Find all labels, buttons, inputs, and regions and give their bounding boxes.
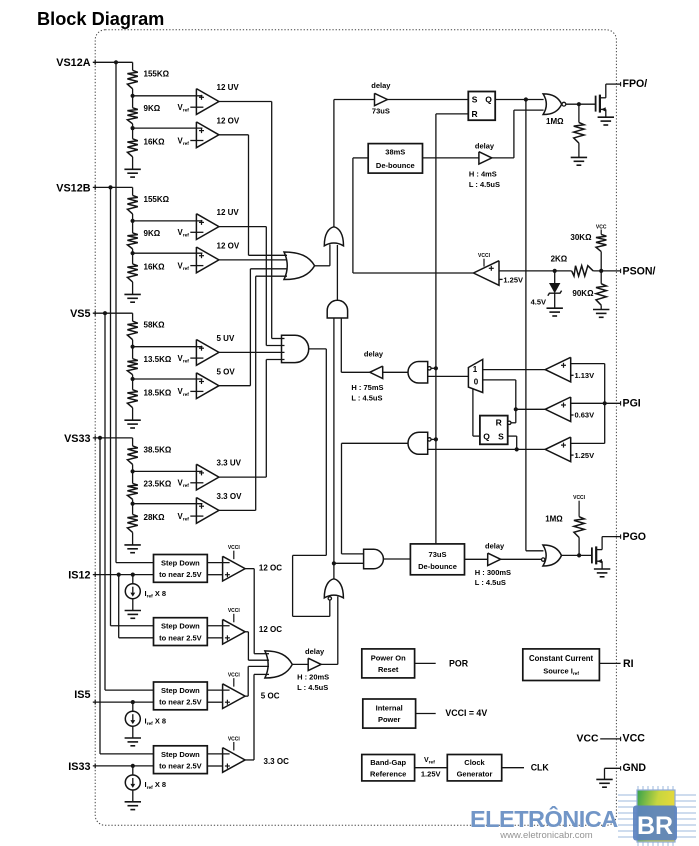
svg-text:12 UV: 12 UV xyxy=(217,208,240,217)
wire VS12B R2-R3 xyxy=(132,249,134,264)
logo BR square xyxy=(633,806,677,841)
comparator 3.3 OV xyxy=(196,498,219,524)
svg-text:VS12A: VS12A xyxy=(56,57,90,69)
and-gate AND3 (points left, inverted top input) xyxy=(408,362,428,384)
latch RS (R / Q S) xyxy=(480,416,508,445)
node VS33 rail junction xyxy=(98,436,102,440)
wire VS12A R3 to ground xyxy=(132,157,134,170)
node PGO gate / 1M resistor xyxy=(577,553,581,557)
svg-text:90KΩ: 90KΩ xyxy=(572,289,594,298)
wire 5OV output to OR gate xyxy=(219,385,251,387)
current source Iref X 8 xyxy=(132,702,134,711)
comparator 12 OV xyxy=(196,247,219,273)
svg-text:VCC: VCC xyxy=(623,732,646,744)
comparator 12 UV xyxy=(196,214,219,240)
pin GND xyxy=(620,766,622,770)
and-gate UV power-good (4-input) xyxy=(282,335,309,362)
wire 20mS delay output to OC/UV OR xyxy=(321,663,338,665)
wire PGO OR output to gate xyxy=(562,554,592,556)
wire VS5 R2-R3 xyxy=(132,375,134,390)
ground (zener) xyxy=(547,307,563,309)
resistor 155K&#937; (top of VS12B divider) xyxy=(127,195,137,214)
svg-text:58KΩ: 58KΩ xyxy=(144,321,166,330)
resistor 16K&#937; (bottom of VS12B divider) xyxy=(127,264,137,282)
wire mux input 1 from 1.13V comparator xyxy=(483,369,546,371)
svg-text:VS5: VS5 xyxy=(70,308,90,320)
wire 300mS delay to PGO OR (inverted input) xyxy=(501,558,542,560)
wire VS5 R1-R2 xyxy=(132,340,134,359)
svg-text:GND: GND xyxy=(623,762,647,774)
wire NOR output to FPO gate xyxy=(566,103,596,105)
node IS33 current source tap xyxy=(131,764,135,768)
wire GND to ground xyxy=(605,767,621,769)
wire mux select from latch Q xyxy=(472,389,474,436)
svg-text:to near 2.5V: to near 2.5V xyxy=(159,570,202,579)
wire VS12B R3 to ground xyxy=(132,282,134,295)
svg-text:BR: BR xyxy=(637,812,673,840)
wire rail input to step-down (12 OC) xyxy=(116,562,154,564)
svg-text:IS5: IS5 xyxy=(74,689,90,701)
svg-text:2KΩ: 2KΩ xyxy=(551,254,568,263)
wire VS12A chain elbow xyxy=(132,62,134,70)
wire 12OC#1 output to OC OR xyxy=(245,568,254,570)
svg-text:to near 2.5V: to near 2.5V xyxy=(159,762,202,771)
buffer delay H:4mS L:4.5uS xyxy=(479,152,492,164)
wire VS33 chain elbow xyxy=(132,438,134,446)
svg-text:4.5V: 4.5V xyxy=(531,298,546,307)
svg-text:12 OC: 12 OC xyxy=(259,625,282,634)
wire 3.3OC output to OC OR xyxy=(245,759,254,761)
node VS12B rail junction xyxy=(108,185,112,189)
resistor 9K&#937; (middle of VS12A divider) xyxy=(127,108,137,124)
node VS12A rail junction xyxy=(114,60,118,64)
wire OV-OR output to OR2 xyxy=(315,265,330,267)
wire VS12B rail down to step-down xyxy=(110,187,112,625)
svg-text:23.5KΩ: 23.5KΩ xyxy=(144,480,172,489)
latch SR (S Q / R) xyxy=(468,92,495,121)
wire IS33 input xyxy=(93,765,154,767)
pin IS33 xyxy=(94,764,96,769)
svg-text:Step Down: Step Down xyxy=(161,750,200,759)
buffer delay H:20mS L:4.5uS xyxy=(308,658,321,670)
current source Iref X 8 xyxy=(132,575,134,584)
ground (current source) xyxy=(125,610,141,612)
wire VS33 rail down to step-down xyxy=(99,438,101,754)
svg-text:to near 2.5V: to near 2.5V xyxy=(159,698,202,707)
wire latch R input (inverted) xyxy=(508,421,511,424)
wire VS5 input xyxy=(93,312,133,314)
wire VS33 R3 to ground xyxy=(132,532,134,545)
ground (FPO 1M resistor) xyxy=(571,156,587,158)
wire AND5 inverted input from fault bus xyxy=(431,438,436,440)
wire 5UV output to AND gate xyxy=(219,351,285,353)
or-gate OR2 (fault combine, points up) xyxy=(324,227,343,246)
wire 0.63V + input / PGI pin xyxy=(571,402,621,404)
wire IS12 branch to second step-down xyxy=(117,573,121,577)
ground (90K) xyxy=(593,309,609,311)
wire AND5 output to PGO AND xyxy=(342,442,409,444)
svg-text:L : 4.5uS: L : 4.5uS xyxy=(297,683,328,692)
wire AND3 output to 75mS delay xyxy=(383,371,408,373)
svg-text:Reset: Reset xyxy=(378,665,399,674)
node Q output branch xyxy=(524,97,528,101)
svg-text:12 OC: 12 OC xyxy=(259,564,282,573)
wire latch Q output to mux select xyxy=(473,435,480,437)
svg-text:16KΩ: 16KΩ xyxy=(144,263,166,272)
wire VS5 UV tap to comparator xyxy=(133,346,203,348)
svg-text:28KΩ: 28KΩ xyxy=(144,513,166,522)
svg-text:CLK: CLK xyxy=(531,763,550,773)
svg-text:12 OV: 12 OV xyxy=(217,242,240,251)
or-gate OV fault (4-input) xyxy=(284,252,315,280)
wire rail input to step-down (5 OC) xyxy=(105,689,154,691)
ground (GND pin) xyxy=(596,778,612,780)
pin VCC xyxy=(620,737,622,741)
wire VS5 chain elbow xyxy=(132,313,134,321)
svg-text:1.13V: 1.13V xyxy=(575,371,595,380)
box Clock Generator xyxy=(447,755,501,781)
svg-text:3.3 UV: 3.3 UV xyxy=(217,459,242,468)
wire step-down outputs to comparator (12 OC) xyxy=(207,625,229,627)
wire step-down outputs to comparator (3.3 OC) xyxy=(207,753,229,755)
wire 12OV(A) output to OR gate xyxy=(219,134,249,136)
svg-text:IS12: IS12 xyxy=(68,570,90,582)
wire 12OV(B) output to OR gate xyxy=(219,259,287,261)
resistor 9K&#937; (middle of VS12B divider) xyxy=(127,233,137,249)
wire mux output to AND3 xyxy=(428,375,469,377)
ground (VS33 divider) xyxy=(124,544,140,546)
or-gate OC/UV combine (points up, inverted left input) xyxy=(324,579,343,598)
wire POR output xyxy=(415,662,436,664)
pin PSON/ xyxy=(620,269,622,273)
and-gate PGO AND xyxy=(364,549,384,568)
or-gate OC fault (4-input) xyxy=(265,651,292,678)
pin PGI xyxy=(620,401,622,405)
node IS12 current source tap xyxy=(131,573,135,577)
svg-text:16KΩ: 16KΩ xyxy=(144,138,166,147)
node VS5 UV tap xyxy=(131,345,135,349)
wire VS12B chain elbow xyxy=(132,187,134,195)
svg-text:1.25V: 1.25V xyxy=(421,770,441,779)
svg-text:13.5KΩ: 13.5KΩ xyxy=(144,355,172,364)
wire AND1 left input from OC/UV OR gate xyxy=(333,318,335,579)
svg-text:S: S xyxy=(472,94,478,104)
svg-text:155KΩ: 155KΩ xyxy=(144,70,170,79)
node VS12B UV tap xyxy=(131,219,135,223)
svg-text:H : 4mS: H : 4mS xyxy=(469,170,497,179)
wire OC OR to 20mS delay xyxy=(292,663,308,665)
wire VS33 OV tap to comparator xyxy=(133,503,203,505)
mux PGI select (1/0) xyxy=(468,359,482,392)
svg-text:VCC: VCC xyxy=(577,733,599,744)
svg-text:0.63V: 0.63V xyxy=(575,411,595,420)
wire VS5 R3 to ground xyxy=(132,408,134,421)
svg-text:1MΩ: 1MΩ xyxy=(546,117,564,126)
node FPO gate / 1M resistor xyxy=(577,102,581,106)
wire VS33 UV tap to comparator xyxy=(133,470,203,472)
svg-text:PSON/: PSON/ xyxy=(623,265,656,277)
resistor 23.5K&#937; (middle of VS33 divider) xyxy=(127,483,137,499)
svg-text:Q: Q xyxy=(485,94,492,104)
svg-text:1MΩ: 1MΩ xyxy=(545,515,563,524)
svg-text:VCCI: VCCI xyxy=(228,545,241,551)
wire 3.3UV output to AND gate xyxy=(219,476,266,478)
transistor FPO output MOSFET xyxy=(595,96,597,112)
svg-text:VCCI: VCCI xyxy=(228,608,241,614)
wire 12UV(B) output to AND gate xyxy=(219,226,266,228)
wire VS12B input xyxy=(93,186,133,188)
svg-text:ELETRÔNICA: ELETRÔNICA xyxy=(470,805,618,832)
resistor 58K&#937; (top of VS5 divider) xyxy=(127,321,137,340)
resistor 38.5K&#937; (top of VS33 divider) xyxy=(127,446,137,465)
box Band-Gap Reference xyxy=(362,755,415,781)
svg-text:Step Down: Step Down xyxy=(161,559,200,568)
svg-text:De-bounce: De-bounce xyxy=(376,161,415,170)
wire VS5 rail down to step-down xyxy=(104,313,106,690)
box 38mS De-bounce xyxy=(368,144,422,174)
comparator 1.25V (points left) xyxy=(545,437,571,462)
svg-text:73uS: 73uS xyxy=(429,550,447,559)
svg-text:PGI: PGI xyxy=(623,398,641,410)
svg-text:1.25V: 1.25V xyxy=(575,451,595,460)
wire PSON input network xyxy=(499,270,572,272)
pin VS12B xyxy=(94,185,96,190)
svg-text:VCCI: VCCI xyxy=(228,673,241,679)
svg-text:12 OV: 12 OV xyxy=(217,116,240,125)
node fault bus to AND3 xyxy=(434,366,438,370)
svg-text:VCC: VCC xyxy=(596,224,607,230)
svg-text:delay: delay xyxy=(364,350,384,359)
node PGI bus junction xyxy=(603,401,607,405)
buffer delay H:75mS L:4.5uS (points left) xyxy=(370,366,383,378)
wire AND1 right input from 75mS delay xyxy=(340,318,342,372)
wire VS33 R1-R2 xyxy=(132,464,134,483)
svg-text:VCCI = 4V: VCCI = 4V xyxy=(445,708,487,718)
IC boundary dashed border xyxy=(95,30,616,826)
wire mux input 0 from 0.63V comparator xyxy=(483,379,516,381)
current source Iref X 8 xyxy=(132,766,134,775)
svg-text:Power On: Power On xyxy=(371,653,406,662)
svg-text:POR: POR xyxy=(449,658,469,668)
svg-text:1.25V: 1.25V xyxy=(503,276,523,285)
wire UV-AND output loop to OC OR gate xyxy=(309,348,327,350)
wire step-down outputs to comparator (12 OC) xyxy=(207,562,229,564)
svg-text:1: 1 xyxy=(473,365,478,374)
pin VS33 xyxy=(94,436,96,441)
svg-text:PGO: PGO xyxy=(623,531,647,543)
wire 0.63V comparator output xyxy=(516,408,546,410)
wire 5OC output to OC OR xyxy=(245,695,248,697)
wire 12UV(A) output to AND gate xyxy=(219,101,272,103)
wire 3.3OV output to OR gate xyxy=(219,509,256,511)
svg-text:Generator: Generator xyxy=(457,770,493,779)
svg-text:3.3 OC: 3.3 OC xyxy=(264,757,290,766)
wire VS12A rail down to step-down xyxy=(115,62,117,562)
comparator 0.63V (points left) xyxy=(545,397,571,422)
svg-text:to near 2.5V: to near 2.5V xyxy=(159,633,202,642)
wire VS12A R1-R2 xyxy=(132,89,134,108)
svg-text:L : 4.5uS: L : 4.5uS xyxy=(469,180,500,189)
svg-text:Q: Q xyxy=(483,432,490,442)
wire AND1 output to OR2 xyxy=(336,245,338,300)
svg-text:delay: delay xyxy=(485,542,505,551)
svg-text:H : 300mS: H : 300mS xyxy=(475,568,511,577)
node VS33 UV tap xyxy=(131,469,135,473)
wire VS12A R2-R3 xyxy=(132,124,134,139)
ground (VS12A divider) xyxy=(124,168,140,170)
svg-text:VS12B: VS12B xyxy=(56,182,90,194)
node VS12B OV tap xyxy=(131,251,135,255)
node 0.63V branch xyxy=(514,407,518,411)
comparator 5 OV xyxy=(196,373,219,399)
svg-text:9KΩ: 9KΩ xyxy=(144,104,161,113)
wire Q output to NOR gate xyxy=(495,99,543,101)
svg-text:H : 75mS: H : 75mS xyxy=(351,383,383,392)
comparator 12 OC xyxy=(223,619,246,644)
svg-text:Band-Gap: Band-Gap xyxy=(370,758,406,767)
svg-text:RI: RI xyxy=(623,658,634,670)
resistor 28K&#937; (bottom of VS33 divider) xyxy=(127,514,137,532)
wire VS12B OV tap to comparator xyxy=(133,252,203,254)
buffer delay 73uS xyxy=(375,93,388,105)
svg-text:R: R xyxy=(472,109,478,119)
svg-text:delay: delay xyxy=(371,81,391,90)
wire VS12A UV tap to comparator xyxy=(133,95,203,97)
svg-text:S: S xyxy=(498,432,504,442)
svg-text:VCCI: VCCI xyxy=(573,495,586,501)
node VS12A UV tap xyxy=(131,94,135,98)
wire VS12A OV tap to comparator xyxy=(133,127,203,129)
wire VS12A input xyxy=(93,61,133,63)
wire R input from fault bus xyxy=(436,113,468,115)
ground (VS5 divider) xyxy=(124,419,140,421)
wire rail input to step-down (3.3 OC) xyxy=(100,753,154,755)
comparator 3.3 OC xyxy=(223,748,246,773)
box 73uS De-bounce xyxy=(410,544,464,575)
box Internal Power xyxy=(363,699,416,728)
transistor PGO output MOSFET xyxy=(591,547,593,563)
wire IS5 input xyxy=(93,701,154,703)
svg-text:De-bounce: De-bounce xyxy=(418,562,457,571)
comparator 3.3 UV xyxy=(196,464,219,490)
buffer delay H:300mS L:4.5uS xyxy=(488,553,501,565)
wire VS33 input xyxy=(93,437,133,439)
node VS5 OV tap xyxy=(131,377,135,381)
svg-text:H : 20mS: H : 20mS xyxy=(297,673,329,682)
svg-text:5 OC: 5 OC xyxy=(261,691,280,700)
and-gate AND5 (points left, inverted top input) xyxy=(408,432,428,454)
svg-text:Step Down: Step Down xyxy=(161,686,200,695)
logo chip graphic xyxy=(618,786,696,846)
comparator 12 OC xyxy=(223,556,246,581)
wire OC/UV line to PGO AND input xyxy=(334,562,364,564)
wire 1.13V + input to PGI bus xyxy=(571,363,605,365)
node 30K/90K junction xyxy=(599,269,603,273)
wire rail input to step-down (12 OC) xyxy=(111,625,154,627)
pin VS12A xyxy=(94,60,96,65)
svg-text:5 UV: 5 UV xyxy=(217,334,235,343)
resistor 18.5K&#937; (bottom of VS5 divider) xyxy=(127,390,137,408)
wire step-down outputs to comparator (5 OC) xyxy=(207,689,229,691)
wire PGO AND to 73uS de-bounce xyxy=(383,558,410,560)
ground (current source) xyxy=(125,801,141,803)
diode zener 4.5V xyxy=(554,271,556,283)
wire delay to S input xyxy=(387,99,468,101)
wire Q branch down to PGO OR gate xyxy=(525,100,527,551)
wire VCCI output xyxy=(416,713,436,715)
svg-text:30KΩ: 30KΩ xyxy=(570,233,592,242)
resistor 155K&#937; (top of VS12A divider) xyxy=(127,70,137,89)
wire fault bus (R / inverting inputs / de-bounce) xyxy=(435,114,437,544)
node VS33 OV tap xyxy=(131,502,135,506)
wire VS5 OV tap to comparator xyxy=(133,378,203,380)
svg-text:R: R xyxy=(496,418,502,428)
svg-text:Constant Current: Constant Current xyxy=(529,654,594,663)
svg-text:38.5KΩ: 38.5KΩ xyxy=(144,445,172,454)
svg-text:delay: delay xyxy=(475,142,495,151)
svg-text:Power: Power xyxy=(378,715,401,724)
svg-text:VS33: VS33 xyxy=(64,433,90,445)
svg-text:FPO/: FPO/ xyxy=(623,78,648,90)
comparator 5 OC xyxy=(223,684,246,709)
wire 1.25V comparator output to AND5 xyxy=(428,448,546,450)
resistor 13.5K&#937; (middle of VS5 divider) xyxy=(127,359,137,375)
svg-text:5 OV: 5 OV xyxy=(217,367,236,376)
node S input on 1.25V line xyxy=(515,447,519,451)
svg-text:IS33: IS33 xyxy=(68,761,90,773)
svg-text:73uS: 73uS xyxy=(372,107,390,116)
node fault bus to AND5 xyxy=(434,437,438,441)
box Power On Reset xyxy=(362,649,415,678)
pin IS5 xyxy=(94,700,96,705)
node zener junction xyxy=(553,269,557,273)
comparator 12 UV xyxy=(196,89,219,115)
svg-text:155KΩ: 155KΩ xyxy=(144,195,170,204)
wire 75mS delay output to AND1 xyxy=(341,371,370,373)
wire OR2 output to 73uS delay xyxy=(333,100,335,227)
box Step Down to near 2.5V (5 OC) xyxy=(154,682,208,710)
svg-text:Block Diagram: Block Diagram xyxy=(37,9,164,29)
box Step Down to near 2.5V (3.3 OC) xyxy=(154,746,208,774)
svg-text:18.5KΩ: 18.5KΩ xyxy=(144,388,172,397)
wire Vref 1.25V to clock generator xyxy=(415,767,448,769)
comparator 1.13V (points left) xyxy=(545,357,571,382)
pin VS5 xyxy=(94,311,96,316)
wire CLK output xyxy=(502,767,524,769)
pin FPO/ xyxy=(620,82,622,86)
svg-text:12 UV: 12 UV xyxy=(217,83,240,92)
node VS12A OV tap xyxy=(131,126,135,130)
svg-text:9KΩ: 9KΩ xyxy=(144,229,161,238)
comparator 12 OV xyxy=(196,122,219,148)
wire PSON comparator to 38mS de-bounce xyxy=(353,157,368,159)
svg-text:delay: delay xyxy=(305,647,325,656)
svg-text:L : 4.5uS: L : 4.5uS xyxy=(475,578,506,587)
node OC line to PGO AND branch xyxy=(332,561,336,565)
node VS5 rail junction xyxy=(103,311,107,315)
wire VS12B UV tap to comparator xyxy=(133,220,203,222)
svg-text:VCCI: VCCI xyxy=(478,253,491,259)
svg-text:0: 0 xyxy=(474,378,479,387)
svg-text:VCCI: VCCI xyxy=(228,736,241,742)
pin PGO xyxy=(620,534,622,538)
wire AND3 inverted input from fault bus xyxy=(431,367,436,369)
wire latch S input from 1.25V comparator xyxy=(508,435,517,437)
resistor 16K&#937; (bottom of VS12A divider) xyxy=(127,139,137,157)
wire 1.25V + input to PGI bus xyxy=(571,442,605,444)
comparator PSON (1.25V) xyxy=(474,261,500,286)
ground (VS12B divider) xyxy=(124,293,140,295)
